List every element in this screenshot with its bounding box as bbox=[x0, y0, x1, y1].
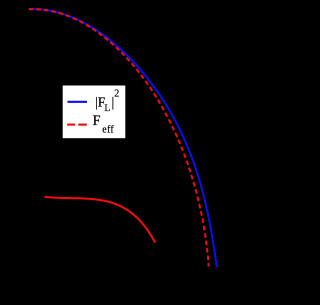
legend label F_eff bbox=[93, 113, 115, 135]
lower red solid curve bbox=[45, 197, 156, 243]
curve |FL|^2 blue solid bbox=[29, 9, 217, 267]
legend blue line sample bbox=[68, 101, 88, 103]
svg-text:2: 2 bbox=[114, 88, 119, 99]
svg-text:eff: eff bbox=[102, 125, 114, 136]
legend label |FL|^2 bbox=[95, 88, 119, 114]
curve F_eff red dashed bbox=[29, 9, 209, 265]
legend red dash sample bbox=[67, 123, 75, 125]
red dash tip dot bbox=[207, 265, 209, 267]
legend box bbox=[63, 86, 126, 139]
svg-text:L: L bbox=[105, 104, 111, 114]
chart canvas bbox=[0, 0, 245, 305]
svg-text:F: F bbox=[93, 113, 101, 129]
